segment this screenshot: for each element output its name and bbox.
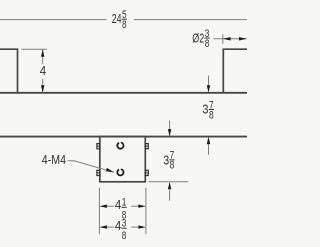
dimension 4 3/8 (tab outer width): dimension line — [107, 226, 114, 228]
dimension Ø2 3/8: right arrowhead — [239, 37, 247, 40]
bar bottom edge — [0, 136, 247, 138]
dimension 4 1/8: right arrowhead — [138, 205, 146, 208]
svg-text:8: 8 — [122, 230, 127, 242]
dimension 3 7/8 (bar thickness): upper arrow — [208, 76, 210, 86]
leader arrowhead 4-M4 — [106, 168, 114, 172]
dimension Ø2 3/8: left extension line — [222, 34, 224, 43]
dimension text 4 1/8 — [115, 196, 127, 221]
svg-text:8: 8 — [122, 19, 127, 31]
svg-text:3: 3 — [202, 101, 208, 116]
svg-text:8: 8 — [209, 109, 214, 121]
dimension text 3 7/8 (bar thickness) — [202, 99, 214, 121]
dimension text Ø2 3/8 — [192, 28, 210, 50]
centre block outline — [100, 137, 146, 182]
svg-text:Ø2: Ø2 — [192, 30, 204, 45]
bottom extension line right — [145, 188, 147, 234]
tapped hole upper (M4) — [117, 143, 123, 149]
dimension 3 7/8 (centre block height): lower arrow — [169, 189, 171, 200]
left tab upper — [97, 144, 100, 149]
svg-text:24: 24 — [112, 11, 122, 26]
dimension 4 1/8: left arrowhead — [99, 205, 107, 208]
svg-text:4: 4 — [40, 63, 46, 78]
svg-text:3: 3 — [163, 153, 169, 168]
dimension 4 3/8: left arrowhead — [99, 225, 107, 228]
svg-text:4-M4: 4-M4 — [42, 152, 66, 167]
svg-text:8: 8 — [205, 38, 210, 50]
leader line 4-M4 — [68, 161, 114, 173]
dimension 3 7/8 (bar thickness): lower arrow — [208, 144, 210, 155]
svg-text:4: 4 — [115, 218, 121, 233]
dimension text 3 7/8 (centre block height) — [163, 150, 174, 172]
dimension 4 (end block height): extension line — [21, 48, 47, 50]
dimension 4: down arrowhead — [41, 85, 44, 93]
left tab lower — [97, 170, 100, 175]
right tab lower — [145, 170, 148, 175]
dimension text 4 3/8 — [115, 217, 127, 242]
dimension Ø2 3/8: left arrowhead — [223, 37, 231, 40]
right tab upper — [145, 144, 148, 149]
dimension Ø2 3/8 (end block width): dimension line — [214, 38, 247, 40]
dimension line 24 5/8 (overall length) — [0, 19, 107, 21]
dimension 4 1/8 (centre block width): dimension line — [107, 205, 114, 207]
svg-text:1: 1 — [122, 196, 127, 208]
tapped hole lower (M4) — [117, 169, 123, 175]
left end block outline — [0, 49, 18, 93]
dimension 4 3/8: right arrowhead — [138, 225, 146, 228]
dimension 4: up arrowhead — [41, 49, 44, 57]
svg-text:8: 8 — [170, 160, 175, 172]
dimension text 24 5/8 — [112, 9, 127, 31]
dimension 3 7/8 (centre block height): extension line — [149, 181, 189, 183]
svg-text:3: 3 — [122, 217, 127, 229]
svg-text:4: 4 — [115, 197, 121, 212]
dimension 3 7/8 (centre block height): upper arrow — [169, 121, 171, 130]
right end block outline — [223, 49, 247, 93]
dimension 4: dimension line segments — [42, 49, 44, 64]
bar top edge — [0, 92, 247, 94]
bottom extension line left — [98, 188, 100, 234]
